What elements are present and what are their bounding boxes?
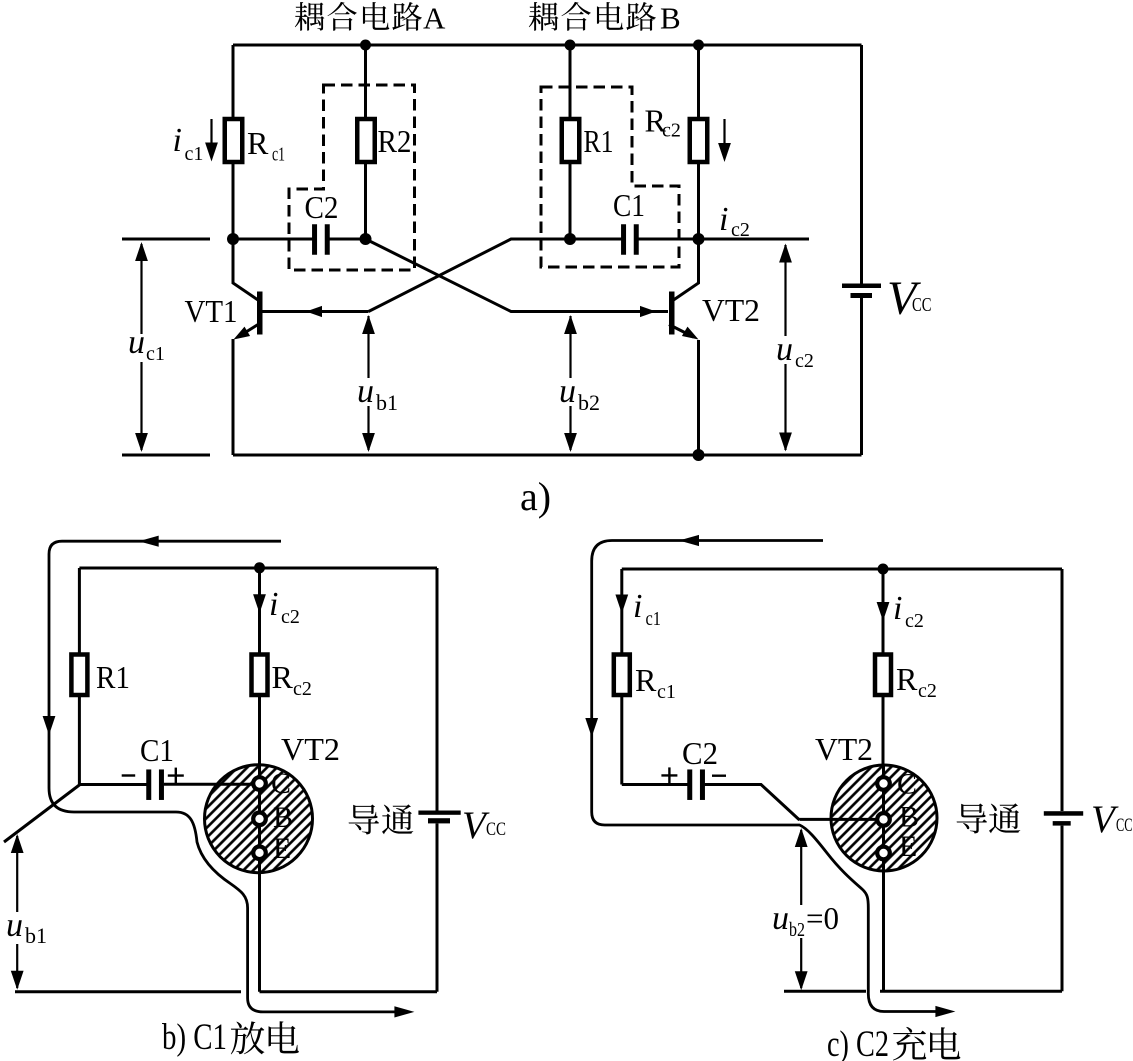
pin C b [253, 777, 266, 790]
dashed box coupling circuit A [289, 85, 415, 270]
svg-text:c1: c1 [146, 343, 165, 365]
dimension u_b1 b [16, 836, 18, 912]
wire left rail b / R1 branch [78, 568, 81, 655]
svg-text:VT2: VT2 [281, 731, 340, 767]
svg-text:u: u [559, 373, 576, 410]
svg-text:V: V [1091, 798, 1119, 841]
capacitor C1 b [146, 769, 151, 800]
svg-text:u: u [6, 907, 23, 944]
svg-text:c2: c2 [905, 610, 924, 632]
svg-text:C: C [897, 768, 917, 801]
svg-text:R: R [896, 661, 918, 697]
svg-text:C1: C1 [140, 732, 174, 768]
current arrow i_c2 c [877, 602, 890, 621]
battery Vcc b [418, 811, 460, 815]
wire cross-coupling node A to VT2 base [366, 239, 669, 312]
wire Rc2 branch [697, 45, 700, 119]
dimension u_b2=0 c [800, 830, 802, 905]
dimension u_c1 [122, 238, 210, 241]
wire right rail b [436, 568, 439, 811]
svg-text:E: E [899, 830, 917, 863]
wire left rail c / Rc1 branch [620, 569, 623, 655]
svg-text:u: u [776, 331, 793, 368]
svg-text:c1: c1 [646, 608, 662, 630]
wire cross-coupling VT1 base to node B [369, 239, 571, 312]
node C2-R2 junction [360, 233, 372, 245]
node C1-base junction [564, 233, 576, 245]
svg-text:B: B [273, 801, 293, 834]
svg-text:VT1: VT1 [185, 293, 238, 329]
node top b [254, 562, 265, 573]
svg-text:VT2: VT2 [815, 731, 873, 767]
current arrow i_c2 b [253, 594, 266, 613]
svg-text:R: R [247, 125, 269, 161]
svg-text:i: i [893, 590, 902, 627]
wire C2 branch c [622, 783, 688, 786]
svg-text:R2: R2 [378, 123, 412, 159]
dashed box coupling circuit B [541, 87, 679, 267]
node collector VT2 [693, 233, 705, 245]
wire bottom rail a [233, 454, 862, 457]
svg-text:b1: b1 [376, 390, 398, 415]
wire base into B pin (halo over hatch) [800, 818, 878, 821]
node top of R2 [360, 40, 371, 51]
pin B c [877, 813, 890, 826]
current arrow i_c2 beside Rc2 [723, 119, 725, 145]
svg-text:b2: b2 [578, 390, 600, 415]
svg-text:C1: C1 [613, 187, 645, 223]
svg-text:A: A [423, 0, 446, 35]
plus sign C1 [168, 774, 184, 776]
svg-text:c1: c1 [657, 681, 676, 703]
pin E c [877, 847, 890, 860]
svg-text:c) C2: c) C2 [827, 1024, 889, 1061]
wire right rail a [860, 45, 863, 284]
resistor Rc2 c [875, 655, 891, 696]
svg-text:i: i [719, 201, 728, 238]
wire R1 branch [569, 45, 572, 119]
svg-text:R1: R1 [584, 123, 614, 159]
dimension u_b2 [569, 316, 571, 378]
wire C1 to collector pin (halo over hatch) [164, 783, 253, 786]
minus sign C2 [712, 775, 726, 777]
wire C2 to base diagonal [705, 785, 800, 821]
transistor VT2 hatched circle b [205, 765, 313, 873]
resistor R1 [562, 119, 580, 162]
svg-text:R: R [272, 659, 294, 695]
wire bottom rail c [784, 990, 866, 993]
svg-text:b1: b1 [25, 923, 47, 948]
svg-text:VT2: VT2 [702, 292, 760, 328]
resistor Rc1 [225, 119, 243, 162]
resistor R2 [357, 119, 375, 162]
svg-text:a): a) [520, 474, 551, 519]
node collector VT1 [227, 233, 239, 245]
svg-text:c1: c1 [272, 144, 285, 166]
current flow loop b [49, 541, 404, 1012]
current arrow i_c1 [210, 119, 212, 146]
pin B b [253, 813, 266, 826]
node top c [878, 564, 889, 575]
svg-text:R: R [635, 662, 657, 698]
svg-text:b2: b2 [789, 919, 805, 941]
label conducting c [957, 803, 987, 833]
arrow into VT2 base [640, 306, 656, 317]
battery Vcc a [842, 284, 881, 289]
svg-text:B: B [660, 0, 681, 35]
svg-text:=0: =0 [806, 900, 839, 936]
svg-text:i: i [633, 588, 642, 625]
svg-text:C: C [271, 767, 291, 800]
node emitter VT2 bottom [693, 449, 705, 461]
minus sign C1 [122, 774, 136, 776]
svg-text:CC: CC [1116, 815, 1133, 836]
wire right rail c [1061, 569, 1064, 811]
svg-text:CC: CC [912, 294, 932, 316]
svg-text:c2: c2 [662, 120, 681, 142]
wire bottom rail b [15, 990, 241, 993]
svg-text:CC: CC [486, 819, 506, 840]
svg-text:c2: c2 [795, 350, 814, 372]
resistor R1 b [71, 655, 87, 696]
svg-text:u: u [772, 900, 789, 937]
transistor VT1 [233, 239, 258, 300]
label coupling circuit B title [529, 2, 559, 31]
svg-text:b) C1: b) C1 [162, 1017, 227, 1058]
svg-text:i: i [173, 122, 182, 159]
arrow into VT1 base [306, 306, 322, 317]
battery Vcc c [1044, 811, 1083, 816]
wire node a to C2 [233, 238, 313, 241]
pin E b [253, 847, 266, 860]
dimension u_b1 [367, 316, 369, 378]
wire left rail a [232, 45, 235, 119]
capacitor C2 c [687, 769, 692, 800]
resistor Rc2 b [252, 655, 268, 696]
resistor Rc2 [690, 119, 708, 162]
svg-text:R1: R1 [96, 659, 130, 695]
transistor VT2 [674, 239, 699, 300]
wire Rc2 branch c [882, 569, 885, 655]
wire C1 branch b [79, 783, 146, 786]
svg-text:c2: c2 [281, 606, 300, 628]
svg-text:u: u [128, 324, 145, 361]
resistor Rc1 c [614, 655, 630, 696]
current arrow i_c1 c [615, 595, 628, 614]
wire top rail b [79, 567, 437, 570]
svg-text:i: i [269, 586, 278, 623]
svg-text:E: E [273, 832, 291, 865]
node top of R1 [565, 40, 576, 51]
dimension u_c2 [784, 245, 786, 450]
current flow loop c [592, 541, 946, 1012]
wire collector-emitter through circle b (halo) [258, 765, 261, 992]
wire R2 branch [364, 45, 367, 119]
wire node to C1 [570, 238, 622, 241]
svg-text:B: B [899, 801, 919, 834]
label coupling circuit A title [295, 2, 325, 31]
wire collector VT2 to right [699, 238, 810, 241]
svg-text:u: u [357, 373, 374, 410]
svg-text:C2: C2 [305, 189, 339, 225]
diagonal base wire b [4, 785, 80, 843]
svg-text:c2: c2 [293, 678, 312, 700]
pin C c [877, 777, 890, 790]
svg-text:c2: c2 [918, 680, 937, 702]
wire Rc2 branch b [258, 568, 261, 655]
plus sign C2 [661, 774, 677, 776]
capacitor C1 [621, 224, 626, 255]
label conducting b [349, 804, 379, 834]
svg-text:c1: c1 [185, 143, 204, 165]
transistor VT2 hatched circle c [831, 765, 937, 871]
svg-text:c2: c2 [731, 219, 750, 241]
wire collector-emitter through circle c (halo) [882, 765, 885, 991]
wire top rail a [233, 44, 862, 47]
capacitor C2 [312, 224, 317, 255]
wire top rail c [622, 568, 1062, 571]
svg-text:C2: C2 [682, 735, 718, 771]
node top of Rc2 [693, 40, 704, 51]
